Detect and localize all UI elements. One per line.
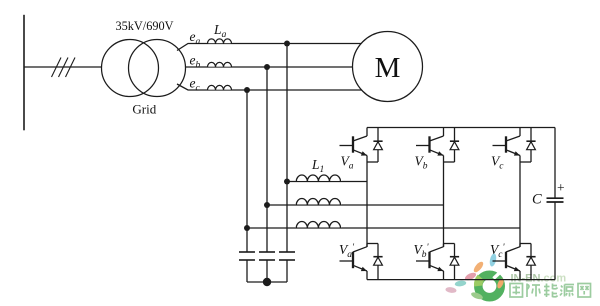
wire filter star join (247, 281, 287, 283)
wire phase b from transformer to motor (186, 66, 381, 68)
IGBT V_b upper switch with diode (416, 128, 459, 163)
wire phase leg c (519, 162, 521, 247)
node phase a tap (284, 41, 290, 47)
svg-text:+: + (557, 180, 565, 195)
inductor L1 phase c (295, 221, 342, 228)
wire phase leg a (366, 162, 368, 247)
wire DC right rail lower (554, 202, 556, 280)
inductor L1 phase a (295, 174, 342, 181)
IGBT V_c' lower switch with diode (493, 244, 536, 280)
wire DC negative rail (367, 279, 555, 281)
inductor Lg phase a (207, 37, 232, 44)
IGBT V_a upper switch with diode (340, 128, 383, 163)
wire drop phase a (286, 44, 288, 253)
wire DC right rail upper (554, 128, 556, 199)
motor M (353, 32, 423, 102)
capacitor C dc-link (547, 198, 564, 202)
IGBT V_a' lower switch with diode (340, 244, 383, 280)
node phase b tap (264, 64, 270, 70)
IGBT V_b' lower switch with diode (416, 244, 459, 280)
wire phase c from transformer to motor (177, 84, 380, 90)
watermark petals (445, 253, 497, 301)
wire phase leg b (443, 162, 445, 247)
wire phase a from transformer to motor (177, 44, 380, 51)
grid bus (23, 15, 25, 131)
transformer T1 primary winding (102, 40, 159, 97)
transformer T1 secondary winding (129, 40, 186, 97)
wire drop phase b (266, 67, 268, 252)
node branch a (284, 179, 290, 185)
watermark logo ring (478, 271, 505, 298)
IGBT V_c upper switch with diode (493, 128, 536, 163)
node branch c (244, 225, 250, 231)
node filter star point (263, 278, 271, 286)
node branch b (264, 202, 270, 208)
feeder wire bus to transformer (24, 66, 102, 68)
wire branch b to L1 (267, 204, 444, 206)
filter capacitor phase b (259, 252, 275, 282)
svg-text:Grid: Grid (132, 101, 156, 116)
wire DC positive rail (367, 127, 555, 129)
svg-text:C: C (532, 192, 542, 208)
node phase c tap (244, 87, 250, 93)
watermark CJK text 国际能源网 (510, 284, 591, 298)
inductor Lg phase b (207, 61, 232, 68)
wire branch a to L1 (287, 181, 367, 183)
svg-text:35kV/690V: 35kV/690V (115, 19, 173, 33)
filter capacitor phase a (279, 252, 295, 282)
wire drop phase c (246, 90, 248, 252)
three-phase slash marks (52, 58, 76, 78)
svg-text:M: M (375, 52, 401, 84)
inductor Lg phase c (207, 84, 232, 91)
filter capacitor phase c (239, 252, 255, 282)
wire branch c to L1 (247, 227, 520, 229)
inductor L1 phase b (295, 198, 342, 205)
